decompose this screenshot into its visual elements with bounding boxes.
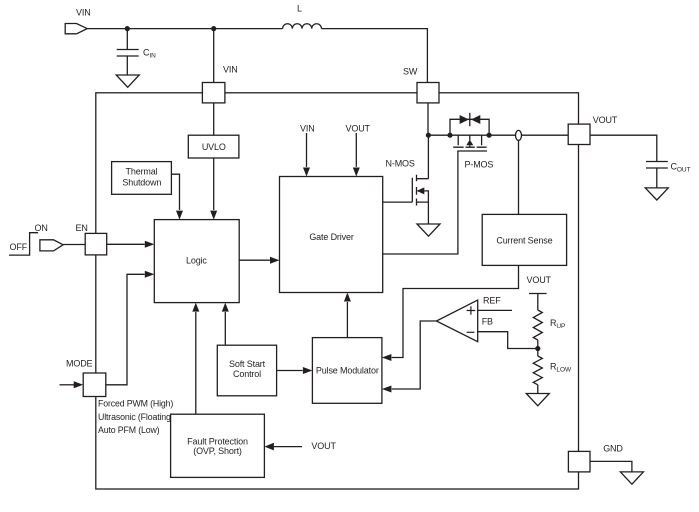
wire VIN into Gate Driver xyxy=(306,133,308,167)
capacitor COUT xyxy=(646,162,668,169)
svg-text:Fault Protection: Fault Protection xyxy=(187,437,248,447)
wire VOUT pin to COUT xyxy=(590,135,657,161)
svg-text:VIN: VIN xyxy=(300,124,315,134)
block Gate Driver xyxy=(280,177,383,293)
wire RUP to RLOW xyxy=(537,340,539,356)
svg-text:Forced PWM (High): Forced PWM (High) xyxy=(98,399,173,409)
svg-text:Soft Start: Soft Start xyxy=(229,359,266,369)
wire Logic to Gate Driver xyxy=(239,259,270,261)
svg-text:RLOW: RLOW xyxy=(550,362,572,374)
svg-text:Auto PFM (Low): Auto PFM (Low) xyxy=(98,425,160,435)
pin VOUT xyxy=(568,124,590,144)
pin MODE xyxy=(83,373,106,397)
node EN input connector xyxy=(40,240,63,251)
diode symbol xyxy=(460,113,481,126)
block Current Sense xyxy=(482,214,566,265)
svg-text:Current Sense: Current Sense xyxy=(496,236,552,246)
wire soft start to pulse modulator xyxy=(277,370,303,372)
wire EN input to pin xyxy=(63,244,85,246)
svg-text:COUT: COUT xyxy=(671,161,691,173)
wire EN to Logic xyxy=(107,243,145,245)
junction CIN tap xyxy=(125,26,130,31)
node VIN input connector xyxy=(65,24,87,34)
junction switch node xyxy=(426,133,431,138)
pin GND xyxy=(568,451,590,472)
svg-text:FB: FB xyxy=(482,317,493,327)
wire P-MOS gate to gate driver xyxy=(383,151,458,254)
junction FB node xyxy=(535,346,540,351)
ground under N-MOS xyxy=(417,224,440,236)
wire switch node to PMOS xyxy=(428,134,516,136)
svg-text:Shutdown: Shutdown xyxy=(122,177,161,187)
wire COUT to ground xyxy=(656,168,658,188)
wire sense to VOUT pin xyxy=(522,134,569,136)
resistor RLOW xyxy=(533,356,542,385)
svg-text:VOUT: VOUT xyxy=(346,124,371,134)
svg-text:Thermal: Thermal xyxy=(126,167,158,177)
diode body diode loop xyxy=(450,119,489,135)
transistor Q1 N-MOS xyxy=(386,135,429,205)
wire MODE input arrow xyxy=(60,384,75,386)
svg-text:SW: SW xyxy=(403,67,418,77)
wire VIN tap down to pin xyxy=(213,29,215,83)
svg-text:Logic: Logic xyxy=(186,255,207,265)
wire VOUT into Gate Driver xyxy=(355,133,357,167)
wire CIN to ground xyxy=(126,56,128,75)
svg-text:VOUT: VOUT xyxy=(311,441,336,451)
svg-text:RUP: RUP xyxy=(550,318,565,330)
svg-text:MODE: MODE xyxy=(66,359,93,369)
wire VIN pin to UVLO xyxy=(213,103,215,135)
junction PMOS source xyxy=(447,133,452,138)
wire SW pin down to switch node xyxy=(427,103,429,135)
svg-text:P-MOS: P-MOS xyxy=(465,160,494,170)
node ON OFF waveform xyxy=(9,233,38,255)
wire MODE to Logic xyxy=(106,274,145,385)
svg-text:VIN: VIN xyxy=(76,8,91,18)
svg-text:Gate Driver: Gate Driver xyxy=(309,232,354,242)
wire current sense to pulse modulator xyxy=(392,265,519,357)
wire GND pin to ground xyxy=(590,461,632,472)
svg-text:VOUT: VOUT xyxy=(593,115,618,125)
wire REF input xyxy=(478,309,512,311)
pin SW xyxy=(417,83,439,103)
IC boundary xyxy=(96,93,579,489)
junction PMOS drain xyxy=(487,133,492,138)
svg-text:N-MOS: N-MOS xyxy=(386,159,415,169)
svg-text:ON: ON xyxy=(35,223,48,233)
wire sense to current sense block xyxy=(518,140,520,214)
pin VIN xyxy=(202,83,225,103)
svg-text:Ultrasonic (Floating): Ultrasonic (Floating) xyxy=(98,412,174,422)
wire RLOW to ground xyxy=(537,385,539,394)
wire FB input from divider xyxy=(478,332,538,349)
current sense element xyxy=(516,130,522,140)
ground at GND pin xyxy=(620,472,643,484)
svg-text:GND: GND xyxy=(603,444,623,454)
wire Thermal Shutdown to Logic xyxy=(171,174,179,210)
svg-text:UVLO: UVLO xyxy=(202,142,226,152)
svg-text:CIN: CIN xyxy=(143,48,156,60)
wire inductor to SW xyxy=(322,29,428,83)
ground under CIN xyxy=(116,75,139,87)
svg-text:OFF: OFF xyxy=(10,242,28,252)
wire top rail VIN to inductor xyxy=(87,28,282,30)
svg-text:VIN: VIN xyxy=(223,65,238,75)
svg-text:REF: REF xyxy=(483,296,501,306)
block Thermal Shutdown xyxy=(112,162,172,195)
block Pulse Modulator xyxy=(312,338,382,404)
wire pulse modulator to gate driver xyxy=(346,302,348,338)
op-amp error comparator xyxy=(436,300,477,342)
wire gate driver to N-MOS gate xyxy=(383,201,413,203)
wire fault protection to logic xyxy=(195,312,197,414)
wire N-MOS source to ground xyxy=(427,202,429,224)
block Soft Start Control xyxy=(217,345,276,396)
svg-text:(OVP, Short): (OVP, Short) xyxy=(193,446,242,456)
svg-text:VOUT: VOUT xyxy=(527,275,552,285)
svg-text:L: L xyxy=(297,4,302,14)
wire UVLO to Logic xyxy=(213,158,215,210)
wire soft start to logic xyxy=(224,312,226,345)
node VOUT tbar xyxy=(529,294,547,311)
pin EN xyxy=(85,233,107,255)
wire comparator output to pulse modulator xyxy=(392,321,437,389)
wire VOUT into fault protection xyxy=(274,446,302,448)
block Logic xyxy=(154,220,239,303)
ground under RLOW xyxy=(526,394,549,406)
ground under COUT xyxy=(645,188,668,200)
capacitor CIN xyxy=(117,50,139,57)
inductor L xyxy=(283,24,322,29)
svg-text:EN: EN xyxy=(76,223,88,233)
svg-text:Control: Control xyxy=(233,369,261,379)
block UVLO xyxy=(188,135,239,158)
transistor Q2 P-MOS xyxy=(453,135,493,169)
block Fault Protection xyxy=(171,414,265,477)
wire CIN lead xyxy=(126,29,128,50)
junction VIN pin tap xyxy=(211,26,216,31)
resistor RUP xyxy=(533,310,542,340)
svg-text:Pulse Modulator: Pulse Modulator xyxy=(316,365,379,375)
